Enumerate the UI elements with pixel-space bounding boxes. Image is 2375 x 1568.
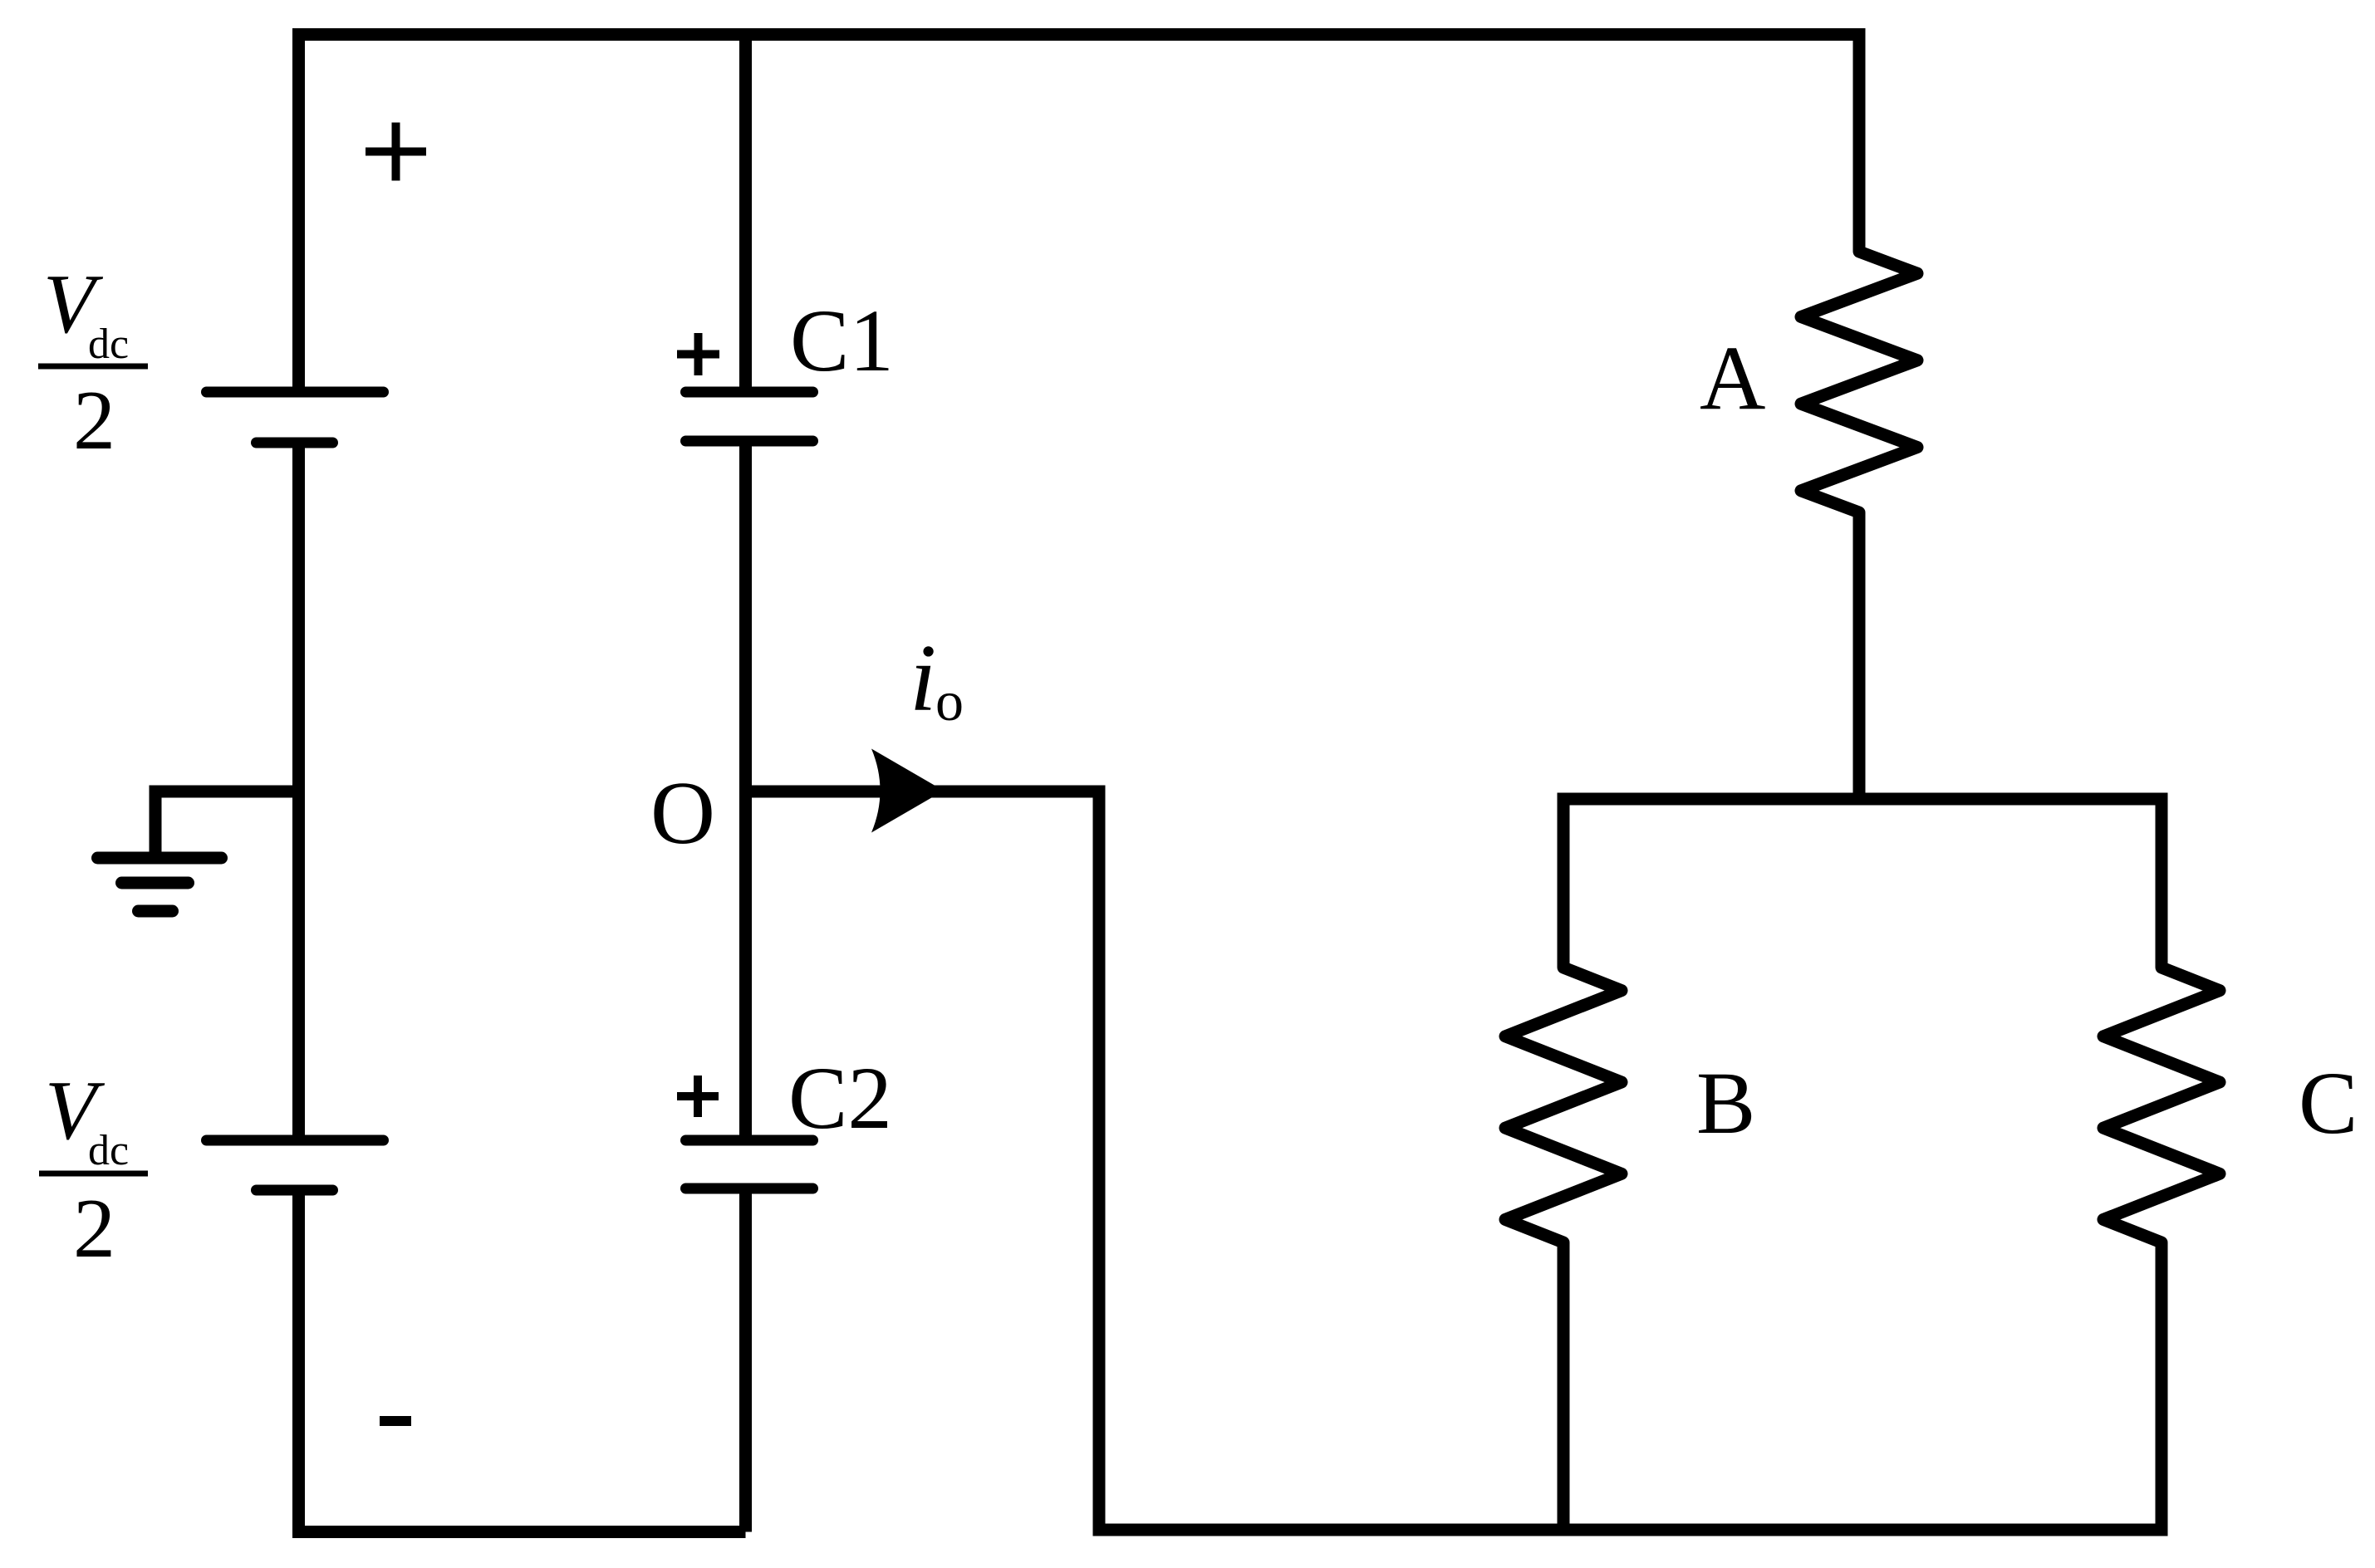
plus sign at capacitor C2 xyxy=(677,1076,719,1117)
wire: left vertical top + top bus + right vertical down to resistor A xyxy=(299,35,1860,393)
fraction bar of bottom Vdc/2 label xyxy=(39,1171,148,1177)
svg-text:o: o xyxy=(935,669,964,733)
label Vdc (bottom source) xyxy=(45,1064,129,1174)
minus sign of source stack (bottom) xyxy=(380,1416,411,1426)
svg-text:C2: C2 xyxy=(788,1050,892,1148)
label io (output current) xyxy=(910,625,964,733)
wire: resistor B bottom stub to bottom-right bus xyxy=(1558,1242,1570,1530)
ground: bar 2 xyxy=(122,877,189,889)
capacitor C2 bottom plate xyxy=(686,1183,813,1194)
wire: C1 bottom plate to C2 top plate through node O xyxy=(739,441,752,1140)
plus sign of source stack (top) xyxy=(366,123,426,181)
fraction bar of top Vdc/2 label xyxy=(38,364,148,370)
svg-text:B: B xyxy=(1696,1055,1755,1153)
svg-text:i: i xyxy=(910,625,936,732)
wire: resistor A bottom stub to mid bus xyxy=(1853,512,1866,799)
arrowhead of output current io xyxy=(871,749,944,833)
capacitor C2 top plate xyxy=(686,1135,813,1146)
svg-text:dc: dc xyxy=(88,321,129,368)
plus sign at capacitor C1 xyxy=(677,333,719,375)
capacitor C1 bottom plate xyxy=(686,436,813,447)
wire: mid bus connecting A, B, C branches xyxy=(1563,799,2162,968)
svg-text:A: A xyxy=(1700,327,1765,429)
battery V1 bottom plate (-, short) xyxy=(257,438,333,448)
svg-text:O: O xyxy=(650,764,715,863)
ground: bar 3 xyxy=(139,905,173,918)
battery V1 top plate (+, long) xyxy=(207,387,384,398)
wire: battery V1 bottom to battery V2 top xyxy=(292,443,305,1140)
svg-text:C: C xyxy=(2299,1055,2358,1153)
capacitor C1 top plate xyxy=(686,387,813,398)
svg-text:dc: dc xyxy=(88,1127,129,1174)
resistor C xyxy=(2103,953,2220,1257)
svg-text:C1: C1 xyxy=(790,292,894,390)
svg-text:2: 2 xyxy=(73,374,115,468)
wire: ground tap from left branch xyxy=(155,791,299,858)
svg-text:2: 2 xyxy=(73,1182,115,1276)
wire: battery V2 bottom down + bottom-left bus to C2 branch xyxy=(299,1190,746,1532)
wire: C2 bottom plate down to bottom-left bus xyxy=(739,1188,752,1532)
resistor A xyxy=(1801,237,1917,527)
battery V2 top plate (+, long) xyxy=(207,1135,384,1146)
battery V2 bottom plate (-, short) xyxy=(257,1185,333,1196)
ground: bar 1 xyxy=(98,852,222,865)
wire: C1 branch from top bus down to C1 top plate xyxy=(739,28,752,392)
label Vdc (top source) xyxy=(43,257,129,368)
resistor B xyxy=(1505,953,1622,1257)
wire: node O output to the right, down, and bottom-right bus to resistor C xyxy=(746,791,2162,1530)
